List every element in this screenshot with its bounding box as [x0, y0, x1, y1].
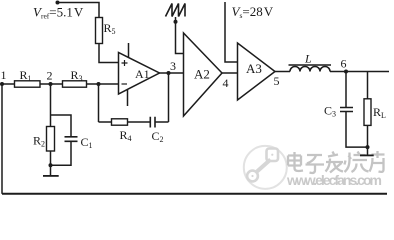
- node 3: [167, 71, 171, 75]
- svg-text:C3: C3: [324, 104, 336, 119]
- svg-text:R2: R2: [33, 134, 45, 149]
- svg-text:A1: A1: [135, 67, 150, 81]
- svg-text:www.elecfans.com: www.elecfans.com: [286, 172, 382, 188]
- resistor R1: [15, 81, 41, 87]
- wire left edge down: [1, 84, 3, 194]
- svg-text:C2: C2: [152, 129, 164, 144]
- inductor core line: [289, 64, 332, 66]
- wire Vref feed to R5: [58, 3, 100, 18]
- resistor R3: [63, 81, 87, 87]
- svg-text:6: 6: [341, 57, 347, 71]
- resistor R5: [96, 18, 103, 44]
- svg-text:5: 5: [274, 74, 280, 88]
- wire C3 branch: [346, 72, 368, 148]
- svg-text:R1: R1: [20, 68, 32, 83]
- ground left: [43, 175, 59, 177]
- wire A1 top pin: [128, 43, 130, 58]
- wire R5 to A1 + input: [99, 44, 119, 63]
- resistor R2: [47, 127, 55, 152]
- node Vref junction dot: [56, 1, 60, 5]
- wire A3 output to inductor: [275, 71, 290, 73]
- svg-text:R3: R3: [71, 68, 83, 83]
- resistor RL: [364, 99, 371, 126]
- svg-text:4: 4: [223, 76, 229, 90]
- ground right: [360, 154, 374, 156]
- wire inductor to node 6 and right edge: [330, 71, 389, 73]
- svg-text:1: 1: [1, 68, 7, 82]
- amplifier A2: [184, 33, 223, 116]
- node RL bottom junction: [366, 145, 370, 149]
- wire C1 branch: [51, 115, 72, 165]
- capacitor C2: [150, 117, 155, 128]
- resistor R4: [112, 119, 128, 125]
- node R2-C1 bottom junction: [49, 163, 53, 167]
- svg-text:2: 2: [47, 69, 53, 83]
- wire left rail: [2, 83, 119, 85]
- node 6: [344, 70, 348, 74]
- svg-text:R5: R5: [104, 21, 116, 36]
- svg-text:L: L: [304, 52, 312, 66]
- wire RL branch: [367, 72, 369, 156]
- wire A2 output to A3: [222, 72, 238, 74]
- capacitor C3: [340, 108, 353, 112]
- watermark logo circle: [244, 146, 287, 189]
- sawtooth source symbol: [166, 4, 186, 17]
- svg-text:Vref=5.1V: Vref=5.1V: [33, 5, 84, 21]
- node 2: [49, 82, 53, 86]
- watermark text 电子发烧友 (vector approximation): [289, 152, 386, 174]
- wire A1 output to A2: [160, 72, 184, 74]
- wire feedback loop: [99, 73, 169, 122]
- op-amp A1: [119, 53, 160, 95]
- capacitor C1: [65, 137, 78, 142]
- wire bottom rail: [2, 193, 387, 195]
- amplifier A3: [238, 43, 276, 100]
- svg-text:R4: R4: [120, 128, 132, 143]
- svg-text:C1: C1: [81, 135, 93, 150]
- wire node 2 branch down: [50, 84, 52, 176]
- svg-text:3: 3: [170, 59, 176, 73]
- wire A1 bottom pin: [127, 90, 129, 106]
- node 1: [0, 82, 4, 86]
- wire sawtooth to A2 upper input: [176, 17, 184, 54]
- svg-text:RL: RL: [373, 105, 386, 120]
- node sawtooth junction dot: [174, 20, 178, 24]
- label A1 plus input: [122, 60, 128, 66]
- inductor L: [290, 67, 330, 72]
- svg-text:A3: A3: [246, 61, 262, 76]
- wire Vs supply to A3: [225, 2, 238, 62]
- svg-text:A2: A2: [194, 67, 210, 82]
- node A1 inverting input junction: [97, 82, 101, 86]
- svg-text:Vs=28V: Vs=28V: [232, 4, 274, 20]
- label A1 minus input: [122, 83, 128, 85]
